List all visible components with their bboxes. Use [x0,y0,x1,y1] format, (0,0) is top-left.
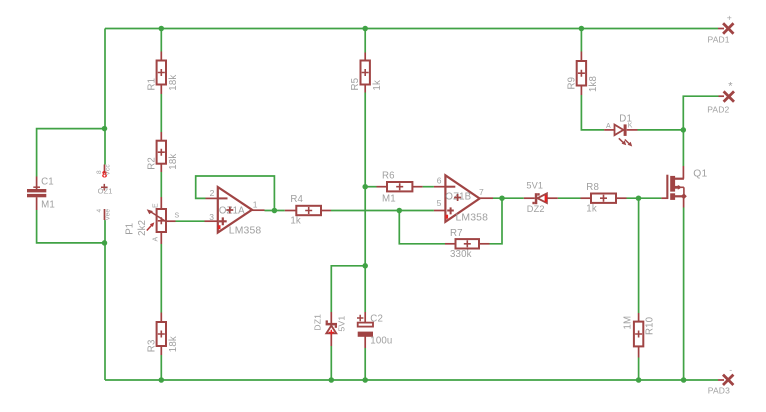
svg-text:Vcc: Vcc [104,164,111,176]
svg-text:M1: M1 [41,200,55,211]
svg-text:C2: C2 [370,313,383,324]
svg-text:LM358: LM358 [456,213,489,224]
svg-text:1: 1 [253,200,258,210]
svg-text:S: S [175,213,180,220]
svg-text:M1: M1 [382,193,396,204]
svg-text:1k: 1k [372,80,383,91]
svg-text:PAD2: PAD2 [707,105,729,115]
svg-text:5V1: 5V1 [336,316,346,332]
svg-text:*: * [728,80,733,92]
svg-text:100u: 100u [370,336,392,347]
svg-text:1k8: 1k8 [588,76,599,92]
svg-text:5: 5 [437,198,442,208]
svg-text:+: + [727,13,732,23]
svg-text:Q1: Q1 [693,168,707,179]
svg-text:P1: P1 [124,223,135,235]
svg-text:1k: 1k [290,216,301,227]
svg-text:2k2: 2k2 [137,220,148,236]
svg-text:R1: R1 [147,78,158,91]
svg-text:7: 7 [479,187,484,197]
svg-text:5V1: 5V1 [526,181,543,191]
svg-text:C1: C1 [41,176,54,187]
svg-text:R7: R7 [450,228,463,239]
svg-text:R9: R9 [566,77,577,90]
svg-text:R3: R3 [147,340,158,353]
svg-text:A: A [606,123,611,130]
svg-text:OZ1: OZ1 [98,187,113,196]
svg-text:18k: 18k [168,336,179,352]
svg-text:R8: R8 [586,182,599,193]
svg-text:1k: 1k [586,204,597,215]
svg-text:A: A [152,237,159,242]
svg-text:R10: R10 [644,316,655,335]
svg-text:8: 8 [96,170,103,174]
svg-text:PAD3: PAD3 [708,385,730,395]
svg-text:330k: 330k [450,249,472,260]
svg-text:1M: 1M [623,316,634,330]
svg-text:2: 2 [210,188,215,198]
svg-text:K: K [628,123,633,130]
svg-text:LM358: LM358 [229,226,262,237]
svg-text:DZ2: DZ2 [527,204,545,214]
svg-text:OZ1A: OZ1A [219,205,245,216]
svg-text:3: 3 [209,212,214,222]
svg-text:6: 6 [437,175,442,185]
svg-text:PAD1: PAD1 [708,34,730,44]
svg-text:18k: 18k [168,75,179,91]
svg-text:R5: R5 [350,78,361,91]
svg-text:4: 4 [96,209,103,213]
svg-text:R2: R2 [147,157,158,170]
svg-text:R6: R6 [382,171,395,182]
svg-text:R4: R4 [290,194,303,205]
svg-text:DZ1: DZ1 [313,314,323,331]
svg-text:18k: 18k [168,154,179,170]
svg-text:-: - [729,364,732,374]
svg-text:E: E [152,203,159,208]
svg-text:Vee: Vee [104,209,111,221]
